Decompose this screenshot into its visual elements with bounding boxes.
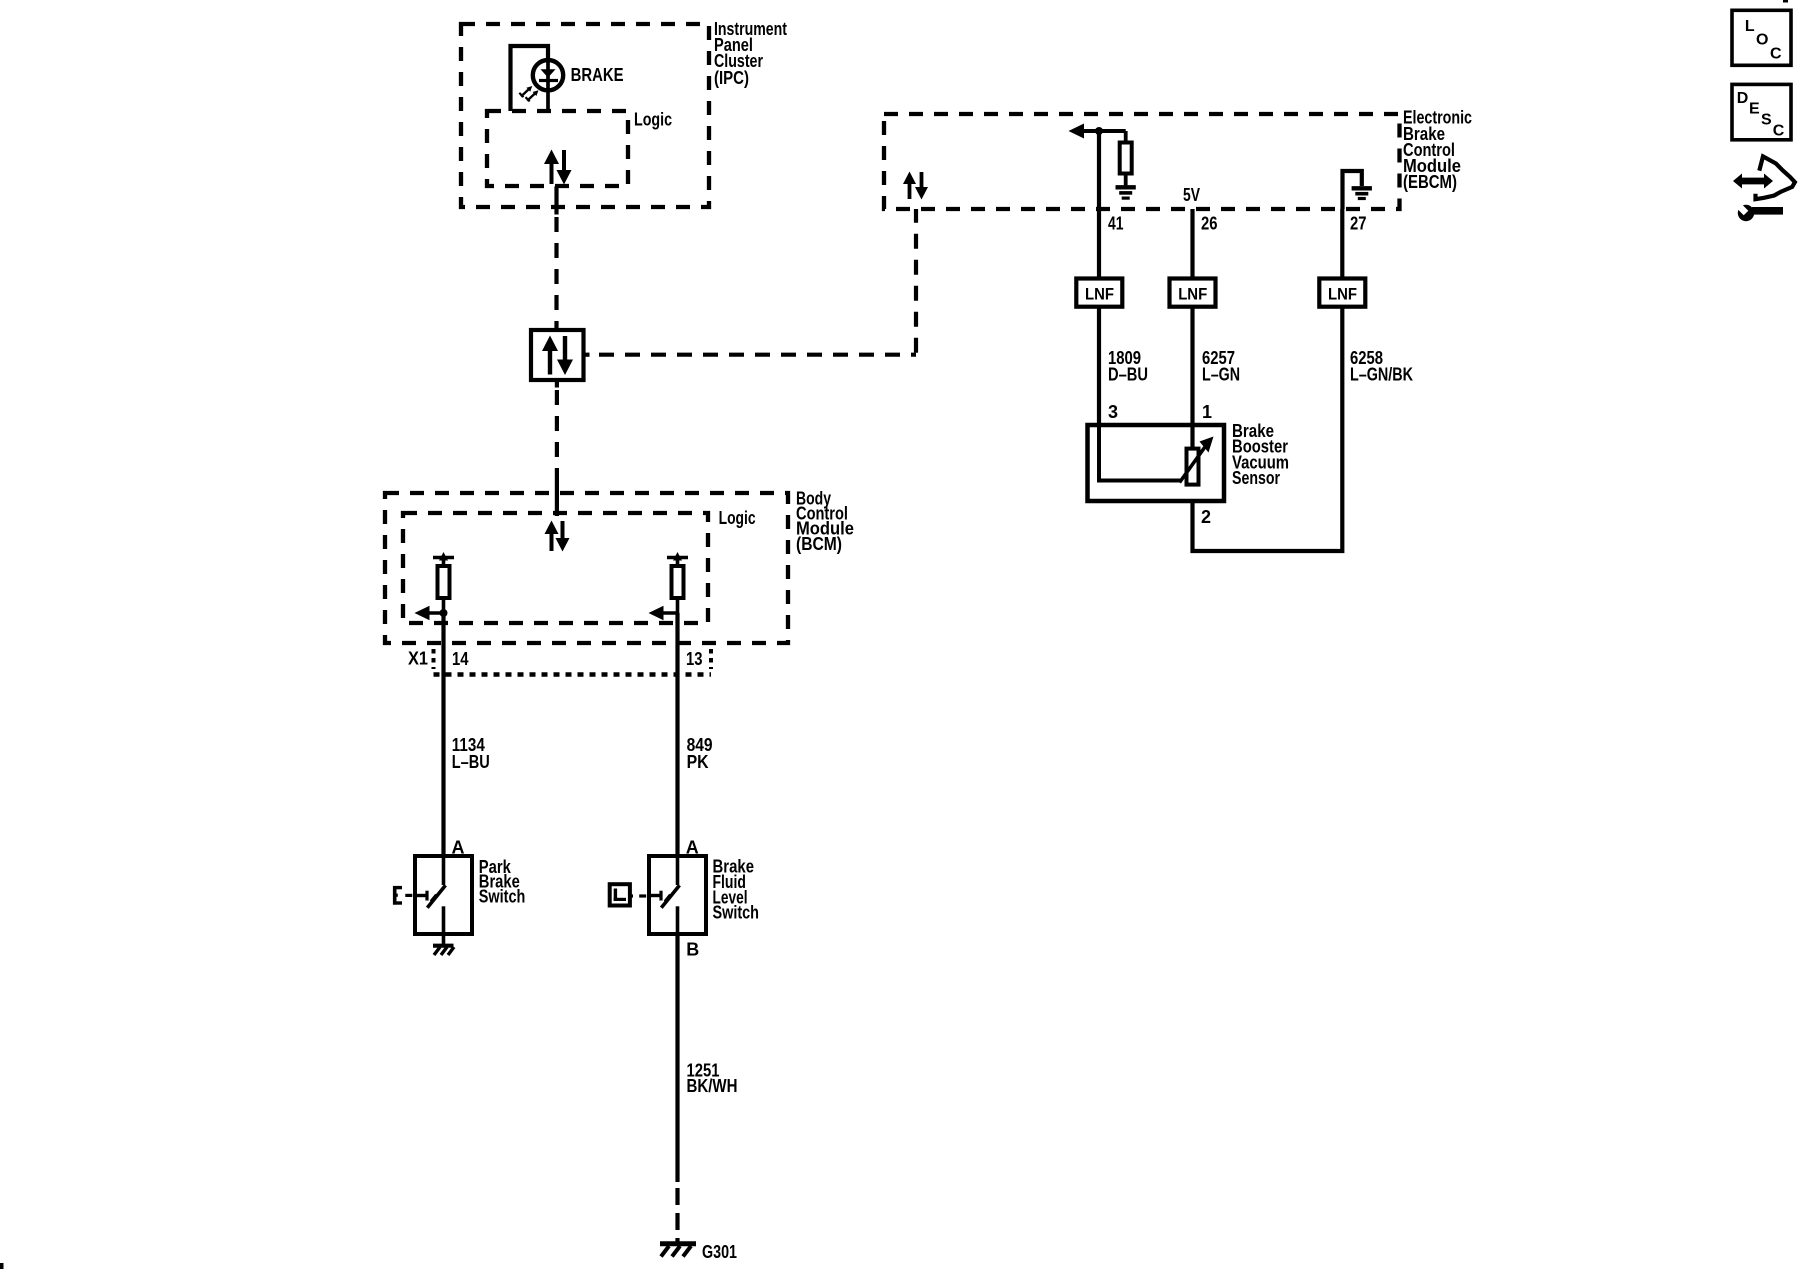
svg-text:5V: 5V (1183, 185, 1200, 205)
wire 849 PK (BCM pin 13 to brake fluid level switch) (675, 613, 679, 856)
svg-text:LNF: LNF (1328, 285, 1357, 304)
svg-text:G301: G301 (702, 1242, 737, 1262)
signal arrow (EBCM pin 41 input) (1069, 124, 1126, 139)
ground chassis (park brake switch) (433, 934, 454, 955)
label Brake Fluid Level Switch (713, 857, 760, 923)
svg-text:2: 2 (1201, 507, 1211, 527)
svg-text:41: 41 (1108, 214, 1124, 234)
label Instrument Panel Cluster (IPC) (714, 19, 787, 88)
junction dot (pin 41 node) (1095, 127, 1103, 135)
label wire 849 PK (687, 735, 713, 772)
connector C3 LNF (wire 6258) (1319, 279, 1365, 307)
actuator symbol E (park brake lever, mechanical link) (393, 886, 412, 905)
wire serial data link to BCM (dashed) (555, 380, 559, 516)
ground (EBCM internal, pin 27) (1352, 188, 1372, 198)
svg-text:C: C (1770, 46, 1782, 63)
svg-text:LNF: LNF (1178, 285, 1207, 304)
label Park Brake Switch (479, 857, 526, 907)
wire 6257 L-GN (EBCM pin 26 to sensor pin 1) (1190, 307, 1194, 449)
module box U3 Electronic Brake Control Module (EBCM) (884, 114, 1400, 209)
stray print artifacts (1783, 0, 1788, 3)
label wire 6258 L-GN/BK (1350, 348, 1413, 384)
svg-text:(EBCM): (EBCM) (1403, 172, 1457, 192)
float symbol L (brake fluid level, mechanical link) (610, 884, 647, 905)
connector C2 LNF (wire 6257) (1170, 279, 1216, 307)
svg-text:D: D (1737, 90, 1749, 107)
svg-text:Switch: Switch (479, 887, 526, 907)
navigation icon (double arrow, bent arrow outline, wrench) (1733, 156, 1795, 221)
svg-text:L–BU: L–BU (452, 752, 490, 772)
wire serial data link to EBCM (class 2 data, dashed) (584, 209, 917, 355)
svg-text:BK/WH: BK/WH (687, 1076, 738, 1096)
svg-text:X1: X1 (408, 649, 428, 669)
resistor R1 (BCM pull-up, pin 14) (433, 552, 454, 614)
label wire 1134 L-BU (452, 735, 490, 772)
reference box DESC (1732, 84, 1791, 139)
label Body Control Module (BCM) (796, 489, 854, 555)
svg-text:B: B (686, 940, 699, 960)
logic box (BCM) (403, 513, 708, 623)
wire 1809 D-BU (EBCM pin 41 to sensor pin 3) (1097, 307, 1101, 425)
serial data arrows (BCM logic) (545, 521, 570, 552)
svg-text:L: L (1745, 18, 1755, 35)
svg-text:L–GN/BK: L–GN/BK (1350, 364, 1413, 384)
svg-text:Logic: Logic (719, 508, 756, 528)
svg-text:S: S (1761, 112, 1772, 129)
label wire 1251 BK/WH (687, 1061, 738, 1097)
svg-text:LNF: LNF (1085, 285, 1114, 304)
wire 1134 L-BU (BCM pin 14 to park brake switch) (441, 613, 445, 856)
wire 6258 L-GN/BK (EBCM pin 27 to sensor pin 2) (1193, 307, 1343, 551)
label Brake Booster Vacuum Sensor (1232, 421, 1289, 488)
serial data arrows (IPC logic) (544, 150, 572, 185)
svg-text:1: 1 (1202, 402, 1212, 422)
svg-text:(IPC): (IPC) (714, 68, 749, 88)
wire EBCM pin 27 (ground return) (1340, 209, 1344, 279)
wire EBCM pin 27 internal ground jog (1343, 171, 1362, 209)
logic box (IPC) (487, 111, 628, 186)
reference box LOC (1732, 10, 1791, 65)
module box U2 Body Control Module (BCM) (385, 493, 788, 643)
serial data link box (531, 330, 584, 380)
module box U1 Instrument Panel Cluster (IPC) (461, 24, 709, 207)
label wire 1809 D-BU (1108, 348, 1148, 384)
ground G301 (660, 1244, 696, 1257)
svg-text:13: 13 (686, 649, 703, 669)
svg-text:O: O (1756, 32, 1768, 49)
wire lamp loop (IPC internal) (511, 46, 549, 111)
potentiometer (sensor element) (1180, 437, 1214, 485)
svg-text:27: 27 (1350, 214, 1367, 234)
svg-text:C: C (1773, 123, 1785, 140)
svg-text:D–BU: D–BU (1108, 364, 1148, 384)
serial data arrows (EBCM) (903, 172, 928, 200)
wire EBCM pin 41 (internal to connector) (1097, 131, 1101, 279)
svg-text:14: 14 (452, 649, 469, 669)
svg-text:Sensor: Sensor (1232, 468, 1280, 488)
svg-text:3: 3 (1108, 402, 1118, 422)
signal arrow (BCM pin 13 input) (649, 606, 678, 620)
svg-text:Switch: Switch (713, 903, 760, 923)
resistor R2 (BCM pull-up, pin 13) (667, 552, 688, 614)
wire 1251 dashed segment to ground (675, 1188, 679, 1242)
brake fluid level switch S2 (649, 856, 706, 934)
label Electronic Brake Control Module (EBCM) (1403, 108, 1472, 193)
signal arrow (BCM pin 14 input) (415, 606, 444, 620)
connector C1 LNF (wire 1809) (1076, 279, 1122, 307)
wire 1251 BK/WH (fluid level switch to ground) (675, 934, 679, 1182)
svg-text:(BCM): (BCM) (796, 534, 842, 554)
resistor R3 (EBCM pull-up) (1120, 131, 1132, 186)
ground (EBCM internal, resistor) (1116, 187, 1136, 198)
park brake switch S1 (415, 856, 472, 934)
brake booster vacuum sensor B1 (box) (1088, 425, 1225, 501)
junction dot (pin 14 wire) (440, 609, 448, 617)
svg-text:PK: PK (687, 752, 709, 772)
svg-text:L–GN: L–GN (1202, 364, 1240, 384)
wire IPC logic to serial data box (554, 186, 558, 331)
indicator lamp BRAKE (519, 59, 563, 112)
serial data arrows (link box) (542, 336, 573, 376)
label wire 6257 L-GN (1202, 348, 1240, 384)
svg-text:Logic: Logic (634, 109, 672, 129)
svg-text:E: E (1749, 101, 1760, 118)
svg-text:26: 26 (1201, 214, 1218, 234)
wire EBCM pin 26 (5V supply) (1190, 209, 1194, 279)
svg-text:BRAKE: BRAKE (571, 65, 624, 85)
sensor internal wire (pin 3 to wiper) (1099, 425, 1182, 481)
connector X1 strip (BCM) (434, 649, 712, 675)
